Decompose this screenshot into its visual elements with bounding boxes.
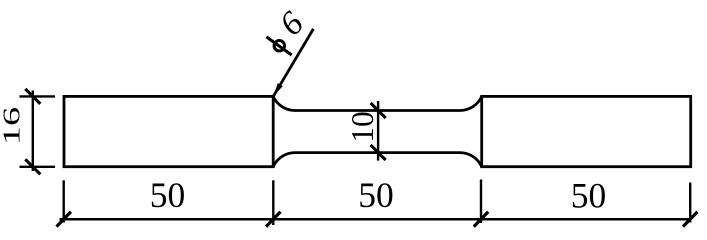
svg-text:6: 6 — [273, 5, 311, 43]
svg-text:50: 50 — [571, 176, 607, 216]
svg-text:50: 50 — [150, 175, 186, 215]
svg-text:16: 16 — [0, 107, 25, 145]
svg-text:50: 50 — [358, 175, 394, 215]
svg-text:10: 10 — [345, 111, 380, 143]
